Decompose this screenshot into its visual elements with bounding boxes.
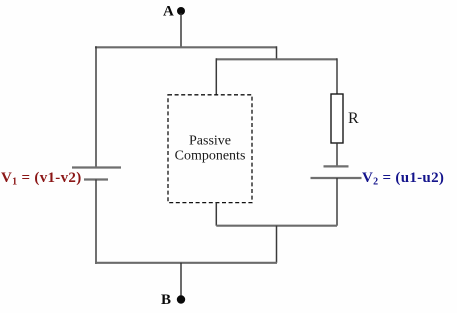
svg-text:R: R [348,110,359,127]
wire from battery V2 down to bottom inner rail [336,178,338,226]
wire top outer rail [95,46,277,48]
svg-text:A: A [163,4,174,20]
battery V1 long plate [72,166,121,168]
wire jog between inner and outer bottom rails [276,226,278,263]
resistor R [331,94,343,143]
wire from top inner rail down to resistor R [336,58,338,94]
node B [177,295,185,303]
wire left branch down to battery V1 [95,46,97,167]
svg-text:B: B [161,292,171,308]
wire jog between outer and inner top rails [276,46,278,59]
wire from passive components box down to bottom inner rail [215,203,217,226]
battery V1 short plate [84,178,108,180]
node A [177,7,185,15]
svg-text:Passive: Passive [189,134,231,149]
svg-text:Components: Components [175,149,246,164]
wire top inner rail [216,58,337,60]
wire from bottom outer rail down to node B [180,263,182,297]
passive components dashed box [168,95,252,203]
battery V2 short plate [324,165,349,167]
wire bottom outer rail [95,262,277,264]
battery V2 long plate [311,177,362,179]
wire from node A down to top rail [180,13,182,47]
wire bottom inner rail [216,225,337,227]
wire from resistor R down to battery V2 [336,143,338,166]
wire from battery V1 down to bottom outer rail [95,180,97,265]
wire from top inner rail down to passive components box [215,58,217,95]
